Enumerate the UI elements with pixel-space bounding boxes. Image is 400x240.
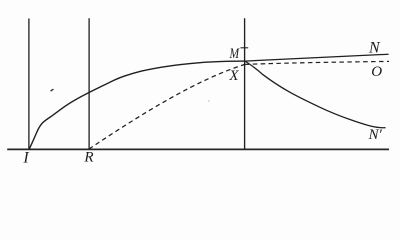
small ink speck bbox=[51, 89, 54, 91]
faint dot bbox=[208, 100, 209, 101]
svg-text:O: O bbox=[371, 64, 382, 80]
dashed flat line to O bbox=[245, 61, 389, 64]
dashed rising curve from R bbox=[89, 64, 245, 149]
vertical line at M bbox=[244, 18, 246, 149]
svg-text:X: X bbox=[228, 68, 239, 84]
svg-text:I: I bbox=[22, 150, 29, 167]
svg-text:R: R bbox=[83, 150, 93, 166]
vertical line at R bbox=[88, 18, 90, 150]
svg-text:N′: N′ bbox=[368, 127, 383, 143]
svg-text:N: N bbox=[368, 39, 381, 56]
solid line M to N bbox=[245, 54, 389, 61]
svg-text:M: M bbox=[229, 46, 241, 62]
descending solid curve to N' bbox=[246, 62, 386, 128]
main solid curve I to M bbox=[29, 61, 245, 150]
vertical line at I bbox=[28, 19, 30, 150]
tick on M line bbox=[241, 47, 249, 49]
paper background bbox=[0, 0, 400, 181]
baseline (horizontal axis) bbox=[7, 148, 389, 150]
